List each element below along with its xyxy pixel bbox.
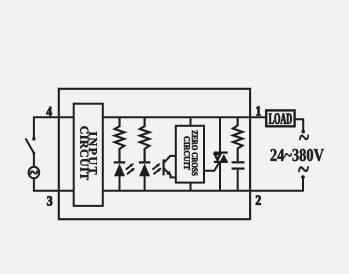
wire: D2 to bottom rail (144, 176, 146, 191)
wire: zero cross block to bottom rail (190, 183, 192, 191)
wire: C1 to bottom rail (237, 170, 239, 191)
node: lower AC supply terminal (301, 175, 305, 179)
AC control source symbol (29, 167, 40, 179)
LED D1 (indicator) cathode bar (114, 161, 126, 163)
SSR outer enclosure box (59, 89, 250, 219)
resistor R1 (115, 117, 125, 161)
LED D2 triangle (139, 164, 150, 177)
wire: bottom rail from input block to AC supply (103, 190, 304, 192)
terminal 2 label (256, 195, 261, 204)
triac Q2 upper bar (214, 152, 228, 154)
resistor R2 (140, 117, 150, 161)
terminal 3 label (47, 196, 52, 205)
wire: top rail to triac (219, 117, 221, 152)
wire: triac to bottom rail (219, 162, 221, 191)
Q1 emitter arrowhead (166, 171, 171, 176)
LED D2 (optocoupler emitter) cathode bar (139, 161, 151, 163)
input circuit block U1 (74, 104, 103, 206)
Q1 emitter lead to zero-cross block (164, 169, 177, 178)
triac gate wire to zero cross block (204, 163, 219, 171)
Q1 collector lead to zero-cross block (164, 156, 177, 163)
upper AC supply tilde (299, 135, 309, 140)
phototransistor Q1 base bar (163, 159, 165, 175)
wire: switch to AC control source (33, 153, 35, 167)
switch S1 lower contact (33, 152, 36, 155)
wire: lower AC supply terminal to bottom rail (302, 177, 304, 191)
wire: top rail from input block to LOAD (103, 116, 267, 118)
wire: zero cross block to top rail (190, 117, 192, 126)
capacitor C1 lower plate (232, 167, 245, 169)
triac Q2 right triangle (220, 154, 227, 161)
resistor R3 (snubber) (233, 117, 243, 161)
AC supply voltage label (271, 149, 324, 161)
lower AC supply tilde (298, 166, 309, 172)
wire: LOAD to upper AC supply terminal (295, 119, 303, 131)
switch S1 upper contact (32, 138, 35, 141)
LOAD box (266, 110, 294, 126)
LED D1 triangle (114, 164, 125, 177)
wire: top rail (terminal 4 side) (34, 117, 74, 137)
node: upper AC supply terminal (301, 130, 305, 134)
capacitor C1 upper plate (232, 161, 245, 163)
triac Q2 lower bar (214, 161, 228, 163)
D1 light emission arrows (126, 163, 135, 174)
wire: bottom rail (terminal 3 side) (34, 178, 74, 191)
switch S1 blade (26, 138, 34, 153)
optocoupler light arrows (152, 163, 161, 174)
terminal 4 label (47, 107, 52, 116)
triac Q2 left triangle (215, 154, 221, 160)
wire: D1 to bottom rail (119, 176, 121, 191)
zero cross circuit block U2 (176, 126, 204, 183)
terminal 1 label (256, 106, 260, 115)
